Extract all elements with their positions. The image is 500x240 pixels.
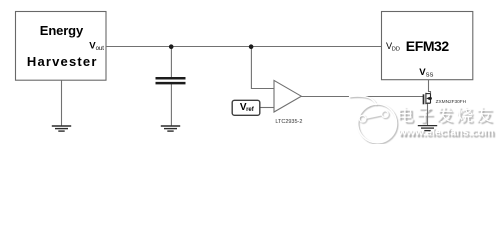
svg-text:EFM32: EFM32 <box>406 38 450 54</box>
svg-text:DD: DD <box>392 47 400 53</box>
svg-text:ZXMN2F30FH: ZXMN2F30FH <box>436 99 467 105</box>
svg-text:Energy: Energy <box>40 23 84 38</box>
svg-text:Harvester: Harvester <box>27 54 97 69</box>
svg-text:SS: SS <box>426 73 434 79</box>
svg-text:LTC2935-2: LTC2935-2 <box>275 119 302 125</box>
svg-text:ref: ref <box>246 107 255 113</box>
svg-text:out: out <box>96 46 105 52</box>
